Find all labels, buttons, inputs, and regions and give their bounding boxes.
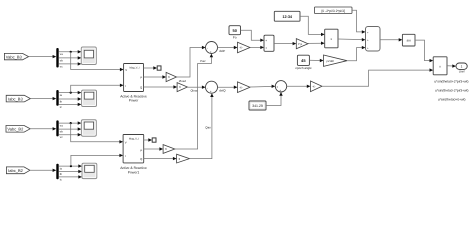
svg-text:+: + [210, 90, 212, 94]
wire P1 up to sum1 bottom [175, 56, 212, 149]
svg-text:341.29: 341.29 [252, 104, 263, 108]
wire U1 Mag_V_I to terminator [144, 66, 158, 69]
gain K3 [311, 81, 323, 92]
svg-text:V: V [125, 140, 127, 144]
wire product1 to sum3 [338, 38, 366, 41]
constant Fo 50 [229, 26, 241, 40]
demux Demux3 [56, 120, 58, 136]
svg-text:Mag_V_I: Mag_V_I [130, 66, 140, 69]
wire pi/180 to sum3 [347, 46, 366, 61]
wire U1 Q to gain [144, 85, 178, 88]
svg-text:50: 50 [232, 28, 237, 33]
gain K2 [238, 82, 251, 93]
svg-text:45: 45 [301, 58, 306, 63]
wire vector to sum3 [352, 10, 366, 33]
svg-text:pi/180: pi/180 [327, 60, 335, 63]
svg-text:u*sin(theta0-2*pi/3+wt): u*sin(theta0-2*pi/3+wt) [435, 88, 468, 92]
gain Q1 [177, 154, 190, 163]
demux Demux4 [56, 164, 58, 179]
wire demux4 out a [59, 164, 82, 170]
svg-text:-K-: -K- [239, 86, 243, 89]
wire Fo to sum rect [241, 30, 265, 42]
svg-text:Power: Power [129, 99, 139, 103]
svg-text:Qav: Qav [205, 126, 211, 130]
svg-text:vb: vb [60, 130, 63, 134]
wire K3 to product2 [322, 68, 433, 86]
From tag Vabc_B3 [4, 53, 28, 59]
sum S2 rect [264, 35, 274, 51]
gain pi/180 [324, 55, 348, 66]
wire demux1 out c [59, 62, 82, 68]
wire sin to product2 [415, 40, 433, 62]
demux Demux1 [56, 48, 58, 68]
node junction row4 [70, 165, 72, 167]
product P1x [325, 29, 338, 48]
wire demux2 out b [59, 97, 82, 103]
svg-text:-K-: -K- [239, 47, 243, 50]
wire clock to product1 [300, 16, 325, 36]
node junction row3 [70, 122, 72, 124]
svg-text:Iabc_B3: Iabc_B3 [8, 96, 23, 101]
svg-text:+: + [276, 85, 278, 89]
trig function sin [402, 34, 415, 46]
product P2x [433, 57, 447, 75]
svg-text:Power1: Power1 [128, 170, 140, 174]
svg-text:P: P [140, 75, 142, 79]
wire tag3 to demux3 [30, 127, 56, 130]
gain K1 [238, 42, 251, 53]
wire K1 to sum rect [250, 46, 264, 49]
svg-text:va: va [60, 124, 63, 128]
wire demux1 out b [59, 56, 82, 62]
wire S2 to gain 2pi [274, 42, 296, 45]
wire tag2 to demux2 [30, 97, 56, 100]
svg-text:delP: delP [219, 49, 225, 53]
scope Scope4 [82, 163, 97, 178]
terminator T2 [152, 138, 156, 142]
svg-text:delQ: delQ [219, 89, 226, 93]
wire demux2 out a [59, 91, 82, 97]
sum S3 three input [366, 27, 381, 52]
wire demux3 out b [59, 127, 82, 133]
wire tag1 to demux1 [29, 55, 57, 58]
scope Scope3 [81, 120, 96, 136]
constant vector [0 -2*pi/3 2*pi/3] [314, 7, 352, 14]
svg-text:-K-: -K- [312, 86, 316, 89]
gain Pload [166, 72, 186, 82]
subsystem U2 Active & Reactive Power1 [120, 135, 147, 175]
subsystem U1 Active & Reactive Power [120, 64, 147, 103]
wire U1 P to gain [144, 75, 167, 78]
wire Pload to sum1 left [177, 48, 203, 78]
svg-text:Pload: Pload [179, 79, 187, 83]
svg-text:va: va [60, 52, 63, 56]
node junction row2 [70, 92, 72, 94]
node junction row1 [70, 51, 72, 53]
From tag Vabc_B2 [6, 126, 30, 133]
svg-text:epoch angle: epoch angle [295, 66, 312, 70]
svg-text:+: + [265, 39, 267, 43]
gain P1 [163, 145, 175, 154]
wire tag4 to demux4 [30, 169, 56, 172]
wire product2 to outport [447, 64, 456, 67]
wire demux1 out a [59, 50, 82, 56]
svg-text:u*sin(theta0+0+wt): u*sin(theta0+0+wt) [438, 97, 466, 101]
svg-text:Vabc_B2: Vabc_B2 [7, 127, 24, 132]
constant 341.29 [249, 101, 266, 110]
demux Demux2 [56, 90, 58, 106]
sum S2b [275, 81, 286, 93]
wire 2pi to product1 [308, 42, 325, 45]
wire junction1 to V input [71, 52, 124, 71]
wire S1 to gain K1 [218, 46, 238, 49]
wire 45 to gain pi/180 [309, 59, 323, 62]
svg-text:-: - [207, 46, 208, 50]
svg-text:2*pi: 2*pi [298, 43, 303, 46]
wire Q1 up to sum2a bottom [190, 96, 212, 159]
wire sum3 to sin [380, 38, 402, 41]
wire demux4 out c [59, 175, 82, 181]
svg-text:Iabc_B2: Iabc_B2 [8, 168, 23, 173]
scope Scope1 [81, 47, 96, 65]
wire demux3 out a [59, 121, 82, 127]
wire junction4 to I input [71, 154, 123, 166]
svg-text:+: + [279, 89, 281, 93]
wire 341.29 to sum S2b bottom [266, 92, 283, 106]
gain 2pi [296, 39, 308, 49]
svg-text:Uref: Uref [459, 69, 465, 73]
terminator T1 [157, 66, 161, 70]
svg-text:Vabc_B3: Vabc_B3 [6, 54, 23, 59]
sum S2a [206, 81, 218, 94]
svg-text:-: - [207, 86, 208, 90]
wire U2 P to gain [144, 147, 163, 150]
wire Qload to sum2a left [187, 86, 203, 88]
wire K2 to sum S2b [250, 85, 275, 88]
svg-text:12:34: 12:34 [282, 15, 293, 19]
wire S2a to gain K2 [218, 86, 238, 89]
svg-text:V: V [125, 68, 127, 72]
scope Scope2 [82, 90, 97, 106]
svg-text:Mag_V_I: Mag_V_I [129, 138, 139, 141]
wire junction3 to V input [71, 123, 123, 143]
svg-text:u*sin(theta0+2*pi/3+wt): u*sin(theta0+2*pi/3+wt) [434, 79, 468, 83]
svg-text:Fo: Fo [233, 36, 237, 40]
wire junction2 to I input [71, 84, 124, 93]
wire demux2 out c [59, 103, 82, 109]
constant epoch angle 45 [295, 55, 312, 70]
sum S1 [206, 42, 218, 55]
From tag Iabc_B2 [6, 167, 30, 174]
svg-text:+: + [210, 50, 212, 54]
wire demux4 out b [59, 170, 82, 176]
wire U2 Q to gain [144, 157, 177, 160]
wire S2b to gain K3 [287, 85, 311, 88]
svg-text:[0 -2*pi/3 2*pi/3]: [0 -2*pi/3 2*pi/3] [321, 9, 345, 13]
svg-text:+: + [265, 46, 267, 50]
outport 1 Uref [456, 63, 467, 73]
wire demux3 out c [59, 133, 82, 139]
svg-text:sin: sin [407, 39, 411, 43]
wire U2 Mag_V_I to terminator [144, 138, 152, 141]
gain Qload [177, 83, 198, 93]
svg-text:1: 1 [461, 65, 463, 69]
svg-text:Pav: Pav [200, 59, 206, 63]
From tag Iabc_B3 [6, 95, 30, 102]
svg-text:P: P [140, 148, 142, 152]
svg-text:Qload: Qload [191, 89, 199, 93]
svg-text:vb: vb [60, 58, 63, 62]
digital clock 12:34 [274, 11, 300, 21]
